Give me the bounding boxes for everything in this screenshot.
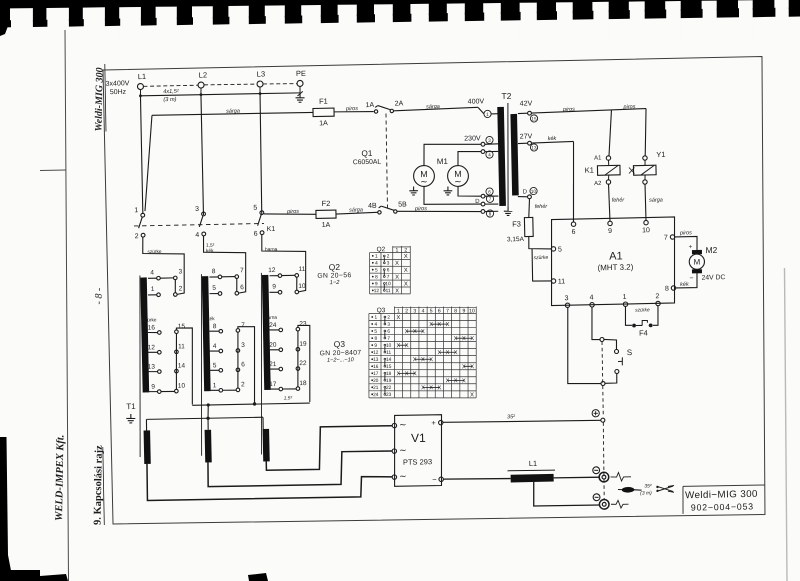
svg-text:X: X (470, 392, 474, 398)
A1 pin 10 (642, 220, 650, 234)
svg-text:X: X (396, 315, 400, 321)
T2 secondary terminal D 10 (518, 187, 538, 199)
svg-text:X: X (404, 282, 408, 288)
svg-text:X: X (395, 288, 399, 294)
svg-text:23: 23 (386, 392, 392, 398)
T2 secondary winding bar (510, 114, 518, 196)
svg-text:13: 13 (531, 145, 537, 150)
svg-text:X: X (413, 371, 417, 377)
svg-text:4x1,5²: 4x1,5² (163, 89, 180, 95)
primary star bus (192, 401, 310, 407)
wire choke to output minus 1 (554, 477, 600, 478)
wire K1 A2 to pin 9 (feher) (609, 184, 626, 221)
wire contact 5 to F2 (piros) (264, 208, 316, 215)
svg-text:21: 21 (373, 385, 379, 391)
V1 terminal ac3 (392, 471, 407, 481)
svg-text:A1: A1 (609, 250, 623, 262)
T2 terminal 1 400V (468, 98, 499, 118)
svg-text:5: 5 (374, 329, 377, 335)
incoming wire (barna) (261, 234, 306, 293)
svg-text:2: 2 (241, 381, 245, 388)
svg-text:X: X (446, 322, 450, 328)
selector output wire szürke (176, 328, 194, 405)
terminal L2 (198, 70, 208, 88)
svg-text:X: X (437, 322, 441, 328)
svg-text:17: 17 (373, 371, 379, 377)
T2 core line (506, 103, 510, 207)
svg-text:X: X (396, 343, 400, 349)
page left edge shadow (0, 0, 68, 581)
svg-text:kék: kék (548, 136, 557, 142)
svg-text:1,5²: 1,5² (206, 243, 215, 249)
output terminal minus 2 (593, 494, 609, 510)
module A1 box (550, 217, 677, 306)
svg-text:7: 7 (241, 322, 245, 329)
relay coil K1 (584, 155, 620, 187)
svg-text:- 8 -: - 8 - (94, 288, 105, 305)
svg-text:X: X (462, 378, 466, 384)
T2 terminal 7 D (475, 195, 498, 206)
cable run line (139, 86, 300, 98)
svg-text:Weldi−MIG 300: Weldi−MIG 300 (685, 489, 758, 502)
svg-text:L3: L3 (257, 69, 266, 78)
wire pin 7 to M2 plus (piros) (675, 230, 698, 250)
svg-text:1: 1 (151, 286, 155, 293)
incoming wire (kék) (203, 235, 246, 294)
Q1 contact 4B-5B (368, 201, 407, 214)
svg-text:2: 2 (387, 315, 390, 321)
svg-text:10: 10 (385, 281, 391, 287)
svg-text:19: 19 (299, 341, 307, 348)
svg-text:PTS 293: PTS 293 (403, 457, 432, 467)
T1 winding group kék primary bar (202, 276, 211, 391)
svg-text:5: 5 (253, 205, 257, 212)
svg-text:A2: A2 (594, 181, 602, 187)
svg-text:X: X (413, 329, 417, 335)
svg-text:15: 15 (178, 323, 186, 330)
svg-text:1−2: 1−2 (330, 280, 341, 286)
wire node to pin 3 (566, 307, 601, 384)
svg-text:9: 9 (151, 384, 155, 391)
T2 secondary terminal 42V 15 (518, 100, 538, 122)
svg-text:21: 21 (269, 361, 277, 368)
svg-text:8: 8 (665, 285, 669, 292)
svg-text:GN 20−8407: GN 20−8407 (320, 350, 362, 358)
T2 terminal 6 (481, 188, 498, 198)
svg-text:11: 11 (298, 266, 305, 273)
svg-text:∼: ∼ (399, 445, 407, 455)
svg-text:10: 10 (298, 283, 306, 290)
rectifier module V1 (393, 414, 443, 486)
margin text Weldi-MIG 300 (94, 64, 106, 132)
svg-text:X: X (446, 378, 450, 384)
V1 terminal ac2 (392, 445, 407, 455)
wire M1b to terminal 6 (458, 186, 481, 197)
label 3x400V 50Hz (106, 80, 130, 96)
A1 pin 9 (608, 221, 613, 235)
svg-text:1,5²: 1,5² (284, 395, 293, 401)
wire M1b to terminal 4 (458, 151, 482, 165)
svg-text:6: 6 (241, 361, 245, 368)
svg-text:sárga: sárga (649, 197, 663, 203)
label Q1 C6050AL (353, 149, 382, 167)
svg-text:27V: 27V (520, 133, 533, 140)
svg-text:1: 1 (213, 382, 217, 389)
svg-text:16: 16 (148, 324, 156, 331)
svg-text:2: 2 (179, 285, 183, 292)
svg-text:22: 22 (299, 360, 307, 367)
strain relief squiggle 2 (611, 500, 629, 508)
A1 pin 3 (564, 295, 569, 307)
svg-text:X: X (470, 336, 474, 342)
page right edge shadow (785, 268, 788, 581)
V1 terminal ac1 (392, 419, 407, 429)
svg-text:X: X (413, 357, 417, 363)
svg-text:7: 7 (387, 274, 390, 280)
wire T1 bar1 to V1 input 3 (147, 459, 393, 502)
svg-text:3: 3 (195, 206, 199, 213)
svg-text:8: 8 (212, 268, 216, 275)
wire T1 bar3 to V1 input 1 (266, 425, 394, 470)
wire M1a to terminal 3 (424, 143, 482, 165)
svg-text:400V: 400V (468, 98, 485, 105)
fuse F3 (506, 217, 533, 243)
svg-text:17: 17 (269, 381, 277, 388)
svg-text:5: 5 (212, 285, 216, 292)
svg-text:∼: ∼ (399, 471, 407, 481)
wire Y1 to pin 10 (sarga) (645, 184, 663, 221)
svg-text:+: + (431, 418, 436, 427)
A1 pin 6 (571, 222, 576, 236)
thermal switch F4 (632, 320, 653, 338)
wire pin 2 to F4 (szurke) (635, 306, 658, 326)
svg-text:3: 3 (179, 268, 183, 275)
A1 pin 5 (551, 246, 562, 253)
svg-text:piros: piros (622, 104, 635, 110)
svg-text:C6050AL: C6050AL (353, 159, 382, 167)
A1 pin 4 (589, 294, 594, 307)
svg-text:fehér: fehér (535, 204, 549, 210)
svg-text:F2: F2 (321, 199, 330, 208)
svg-text:9: 9 (375, 281, 378, 287)
svg-text:piros: piros (562, 107, 575, 113)
svg-text:6: 6 (254, 231, 258, 238)
T1 core line kék (198, 274, 205, 456)
wire 5B to T2 terminal 8 (piros) (397, 205, 480, 213)
svg-text:14: 14 (178, 363, 186, 370)
svg-text:902−004−053: 902−004−053 (691, 501, 754, 512)
svg-text:3x400V: 3x400V (106, 80, 130, 88)
svg-text:barna: barna (265, 315, 278, 321)
svg-text:X: X (405, 329, 409, 335)
A1 pin 7 (664, 234, 675, 241)
svg-text:−: − (689, 275, 693, 282)
svg-text:sárga: sárga (426, 104, 440, 110)
label 1,5mm2 kek incoming (206, 243, 215, 255)
svg-text:X: X (462, 364, 466, 370)
svg-text:L1: L1 (529, 459, 538, 468)
terminal L3 (257, 69, 266, 87)
svg-text:24V DC: 24V DC (702, 274, 726, 281)
wire pin 4 to S (591, 307, 604, 342)
wire V1 minus to choke L1 (443, 478, 510, 480)
svg-text:6: 6 (571, 229, 575, 236)
svg-text:PE: PE (296, 69, 306, 78)
svg-text:50Hz: 50Hz (110, 89, 127, 96)
svg-text:X: X (405, 371, 409, 377)
svg-text:12: 12 (148, 344, 156, 351)
svg-text:piros: piros (414, 206, 427, 212)
svg-text:19: 19 (386, 378, 392, 384)
svg-text:∼: ∼ (454, 176, 462, 186)
solenoid valve Y1 (629, 150, 667, 185)
svg-text:M1: M1 (437, 157, 449, 166)
svg-text:X: X (437, 350, 441, 356)
svg-text:M: M (694, 257, 701, 266)
svg-text:sárga: sárga (349, 207, 363, 213)
svg-text:35²: 35² (507, 414, 515, 420)
svg-text:1: 1 (375, 254, 378, 260)
wire 2A to T2 terminal 1 (sarga) (394, 103, 484, 116)
svg-text:X: X (405, 343, 409, 349)
svg-text:11: 11 (386, 350, 391, 356)
svg-text:T1: T1 (126, 402, 136, 411)
margin tick (40, 169, 66, 172)
margin text 9. Kapcsolasi rajz (93, 445, 105, 525)
T1 secondary bar 3 (263, 429, 270, 462)
svg-text:X: X (437, 385, 441, 391)
svg-text:4: 4 (375, 260, 378, 266)
T1 secondary bar 2 (205, 430, 212, 463)
svg-text:barna: barna (265, 247, 278, 253)
strain relief squiggle 1 (610, 472, 631, 481)
svg-text:8: 8 (374, 336, 377, 342)
wire T1 bar2 to V1 input 2 (207, 451, 393, 488)
svg-text:1A: 1A (365, 102, 374, 109)
selector lower sub kék (207, 315, 246, 392)
selector output wire kék (238, 326, 256, 403)
T1 winding group szürke primary bar (140, 277, 149, 392)
svg-text:3: 3 (387, 322, 390, 328)
svg-text:35²: 35² (644, 483, 652, 489)
svg-text:5: 5 (375, 267, 378, 273)
label Q3 GN 20-8407 (319, 339, 361, 364)
T2 primary winding bar (497, 107, 506, 206)
svg-text:3: 3 (387, 260, 390, 266)
welding torch symbol (618, 483, 652, 497)
svg-text:9: 9 (608, 228, 612, 235)
svg-text:V1: V1 (411, 431, 426, 445)
svg-text:WELD-IMPEX Kft.: WELD-IMPEX Kft. (54, 435, 67, 522)
svg-text:X: X (421, 329, 425, 335)
svg-text:11: 11 (386, 288, 391, 294)
svg-text:8: 8 (375, 274, 378, 280)
svg-text:12: 12 (373, 350, 379, 356)
svg-text:X: X (446, 350, 450, 356)
T1 core line szürke (136, 275, 143, 457)
choke L1 (507, 459, 555, 483)
svg-text:piros: piros (345, 106, 358, 112)
svg-text:Q2: Q2 (329, 262, 341, 272)
cut mark scissors (656, 485, 674, 492)
svg-text:X: X (395, 275, 399, 281)
svg-text:7: 7 (387, 336, 390, 342)
wire D10 down (feher) (528, 198, 548, 217)
svg-text:3,15A: 3,15A (507, 236, 525, 243)
svg-text:−: − (432, 475, 437, 484)
svg-text:T2: T2 (501, 91, 511, 101)
svg-text:4: 4 (213, 343, 217, 350)
A1 pin 2 (655, 293, 660, 306)
svg-text:24: 24 (269, 322, 277, 329)
svg-text:2: 2 (387, 254, 390, 260)
svg-text:szürke: szürke (142, 317, 157, 323)
wire F3 to pin 5 (529, 236, 552, 249)
svg-text:18: 18 (299, 380, 307, 387)
wire V1 plus to output terminal (443, 412, 601, 423)
wire S to contact top (604, 339, 617, 350)
selector top sub kék (209, 267, 245, 295)
wire branch to pin 11 (szurke) (532, 248, 551, 281)
motor M1b (447, 165, 468, 186)
selector lower sub szürke (142, 317, 187, 394)
svg-text:kék: kék (206, 248, 214, 254)
svg-text:10: 10 (531, 189, 537, 194)
svg-text:(3 m): (3 m) (163, 97, 176, 103)
svg-text:X: X (454, 378, 458, 384)
wire F1 to 1A (piros) (334, 106, 374, 113)
svg-text:18: 18 (386, 371, 392, 377)
terminal linkage dashed (603, 422, 605, 499)
S linkage dashed (602, 342, 604, 417)
svg-text:X: X (429, 322, 433, 328)
svg-text:7: 7 (240, 267, 244, 274)
switch S (614, 348, 632, 374)
svg-text:4: 4 (374, 322, 377, 328)
svg-text:22: 22 (386, 385, 392, 391)
terminal PE (296, 69, 306, 87)
fuse F2 (316, 199, 337, 229)
svg-text:6: 6 (387, 267, 390, 273)
terminal L1 (137, 72, 146, 90)
svg-text:4: 4 (589, 294, 593, 301)
svg-text:piros: piros (286, 209, 299, 215)
svg-text:23: 23 (299, 321, 307, 328)
A1 pin 11 (551, 278, 565, 285)
svg-text:1A: 1A (319, 120, 328, 127)
contactor K1 main contact 1-2 (134, 207, 145, 240)
incoming wire (szürke) (142, 236, 185, 295)
svg-text:(MHT 3.2): (MHT 3.2) (597, 263, 633, 273)
svg-text:8: 8 (213, 323, 217, 330)
motor M2 (688, 243, 725, 282)
svg-text:5: 5 (213, 362, 217, 369)
svg-text:11: 11 (178, 343, 185, 350)
output terminal plus (592, 409, 605, 422)
svg-text:24: 24 (373, 392, 379, 398)
svg-text:GN 20−56: GN 20−56 (317, 272, 352, 280)
svg-text:F3: F3 (512, 219, 521, 228)
title block box (682, 485, 765, 514)
svg-text:1: 1 (134, 207, 138, 214)
svg-text:szürke: szürke (635, 307, 650, 313)
selector top sub szürke (147, 268, 183, 296)
margin rule line (65, 30, 69, 581)
motor M1a (413, 165, 434, 186)
svg-text:L1: L1 (138, 72, 147, 81)
wire F2 to 4B (sarga) (336, 207, 378, 214)
svg-text:15: 15 (531, 116, 537, 121)
wire M1a to terminal 7 (424, 185, 481, 205)
svg-text:piros: piros (679, 230, 692, 236)
svg-text:10: 10 (386, 343, 392, 349)
Q1 contact 1A-2A (365, 100, 403, 113)
wire tap to F1 (sarga) (143, 107, 315, 211)
selector top sub barna (268, 266, 306, 294)
svg-text:4B: 4B (368, 203, 377, 210)
wire 27V to pin 6 (kek) (531, 136, 575, 223)
output terminal minus 1 (593, 467, 609, 483)
svg-text:X: X (429, 385, 433, 391)
table Q3 (367, 305, 478, 401)
svg-text:+: + (688, 244, 692, 251)
svg-text:sárga: sárga (226, 108, 240, 114)
svg-text:1−2−...−10: 1−2−...−10 (327, 357, 355, 364)
branch to output minus 2 (533, 481, 600, 507)
svg-text:X: X (470, 364, 474, 370)
svg-text:∼: ∼ (420, 176, 428, 186)
wire pin 1 to F4 (625, 306, 632, 325)
svg-text:kék: kék (207, 316, 215, 322)
svg-text:(3 m): (3 m) (640, 490, 652, 496)
svg-text:D: D (523, 189, 528, 195)
fuse F1 (313, 97, 335, 128)
svg-text:X: X (429, 357, 433, 363)
svg-text:Y1: Y1 (656, 150, 665, 159)
svg-text:∼: ∼ (399, 419, 407, 429)
svg-text:10: 10 (178, 383, 186, 390)
schematic frame (103, 56, 772, 528)
svg-text:11: 11 (558, 278, 566, 285)
svg-text:X: X (396, 371, 400, 377)
svg-text:szürke: szürke (147, 249, 162, 255)
svg-text:1: 1 (622, 294, 626, 301)
svg-text:1A: 1A (322, 222, 331, 229)
svg-text:3: 3 (564, 295, 568, 302)
wire L2 down to contact 3 (201, 95, 204, 215)
wire L3 down to contact 5 (259, 94, 262, 214)
dashed mains line (143, 83, 297, 87)
T2 terminal 8 (481, 209, 498, 217)
svg-text:2: 2 (135, 233, 139, 240)
svg-text:6: 6 (387, 329, 390, 335)
ground M1b (447, 186, 449, 190)
A1 pin 1 (622, 294, 627, 307)
svg-text:M2: M2 (705, 245, 717, 255)
svg-text:X: X (462, 336, 466, 342)
ground PE (295, 91, 304, 102)
contactor K1 main contact 3-4 (195, 206, 206, 239)
svg-text:L2: L2 (199, 70, 208, 79)
svg-text:6: 6 (240, 284, 244, 291)
riser bus to secondary star (207, 403, 211, 418)
Q1 linkage dashed (385, 113, 387, 208)
svg-text:Q3: Q3 (334, 339, 346, 349)
svg-text:kék: kék (680, 282, 689, 288)
svg-text:Q1: Q1 (361, 149, 373, 158)
svg-text:2: 2 (655, 293, 659, 300)
svg-text:9: 9 (374, 343, 377, 349)
